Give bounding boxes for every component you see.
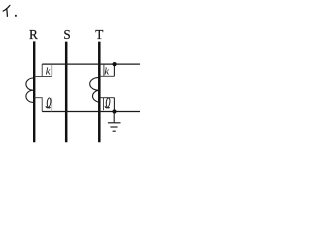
CT1 terminal box k (34, 64, 52, 76)
CT1 terminal label l (script ell) (46, 98, 51, 108)
CT2 terminal box k (100, 64, 114, 76)
phase line R (33, 41, 35, 142)
CT1 terminal box l (34, 98, 52, 112)
svg-text:R: R (29, 27, 38, 42)
top wire: CT1 k terminal to right lead (42, 63, 140, 65)
junction dot bottom (node on l lead) (112, 109, 116, 113)
phase line T (98, 42, 101, 143)
circuit schematic: three-phase lines R,S,T with two current transformers (0, 0, 150, 155)
CT2 secondary coil on T line (90, 78, 98, 103)
period after イ (15, 15, 17, 17)
svg-text:S: S (63, 27, 70, 42)
phase line S (65, 42, 68, 143)
svg-text:T: T (95, 27, 103, 42)
CT2 terminal box l (100, 98, 114, 112)
CT2 terminal label l (script ell) (105, 98, 110, 108)
svg-text:k: k (104, 66, 110, 78)
CT1 secondary coil on R line (26, 78, 33, 102)
ground symbol (108, 123, 121, 131)
bottom wire: CT1 l terminal to right lead (42, 111, 140, 113)
junction dot top (node on k lead) (113, 62, 117, 66)
ground stem (113, 112, 115, 123)
label イ. (answer choice marker) (3, 5, 10, 16)
svg-text:k: k (46, 66, 52, 78)
